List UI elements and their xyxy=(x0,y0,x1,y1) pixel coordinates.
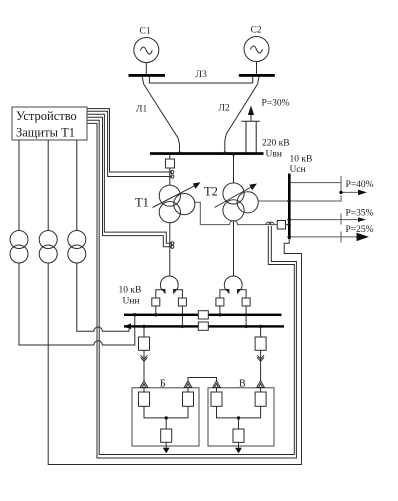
svg-text:Б: Б xyxy=(160,379,166,390)
svg-text:Устройство: Устройство xyxy=(16,109,77,123)
svg-text:Uвн: Uвн xyxy=(266,150,282,160)
svg-text:Р=30%: Р=30% xyxy=(262,99,290,109)
svg-text:10 кВ: 10 кВ xyxy=(290,155,313,165)
svg-text:Л2: Л2 xyxy=(219,104,230,114)
svg-text:Р=25%: Р=25% xyxy=(346,225,374,235)
svg-text:В: В xyxy=(239,379,246,390)
svg-text:C2: C2 xyxy=(251,26,262,36)
svg-text:Uсн: Uсн xyxy=(290,165,306,175)
svg-text:Т1: Т1 xyxy=(135,196,149,210)
svg-text:Л1: Л1 xyxy=(136,105,147,115)
svg-text:Р=40%: Р=40% xyxy=(346,180,374,190)
svg-text:Uнн: Uнн xyxy=(123,297,140,307)
svg-text:Л3: Л3 xyxy=(196,70,207,80)
svg-text:Защиты Т1: Защиты Т1 xyxy=(16,126,75,140)
svg-text:10 кВ: 10 кВ xyxy=(119,286,142,296)
svg-text:Р=35%: Р=35% xyxy=(346,208,374,218)
svg-text:C1: C1 xyxy=(140,27,151,37)
svg-text:Т2: Т2 xyxy=(204,185,218,199)
svg-text:220 кВ: 220 кВ xyxy=(262,139,290,149)
